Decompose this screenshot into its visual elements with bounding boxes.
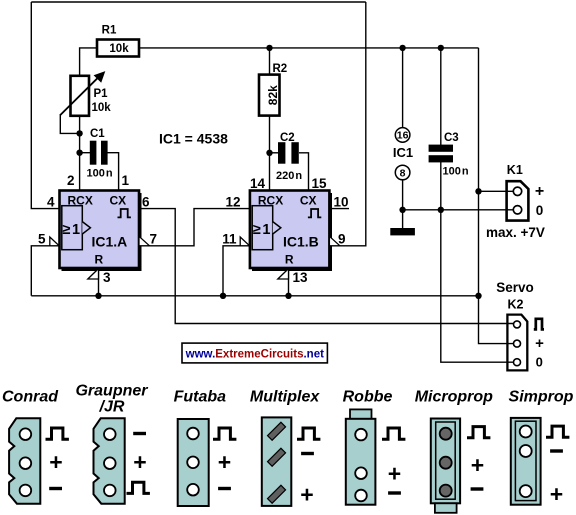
svg-text:C1: C1 [90,128,105,140]
svg-text:IC1: IC1 [393,145,413,160]
svg-text:R2: R2 [273,63,288,75]
node junction bottom rail supply drop [475,293,481,299]
wire pin 6 to K2 pulse pin [139,209,514,324]
Graupner pulse symbol [127,482,150,493]
Microprop minus [471,487,484,490]
wire K1 plus [479,190,514,192]
svg-text:13: 13 [293,270,309,285]
Multiplex minus [301,452,314,455]
ground [390,228,415,235]
svg-text:K2: K2 [508,297,524,311]
wire IC1 pin 8 [402,180,404,210]
svg-text:+: + [49,449,62,475]
wire C1 left link [80,152,90,154]
connector Microprop [431,419,460,513]
svg-text:+: + [471,452,484,478]
svg-text:/JR: /JR [99,399,125,416]
svg-text:8: 8 [400,167,406,179]
svg-text:Futaba: Futaba [174,388,227,405]
wire ground rail to K1 zero pin [403,209,514,211]
svg-text:IC1 = 4538: IC1 = 4538 [159,130,228,146]
svg-text:2: 2 [67,173,75,188]
svg-text:+: + [535,335,544,352]
svg-text:9: 9 [338,231,346,246]
svg-text:Microprop: Microprop [415,389,493,406]
wire C2 right to pin 15 [299,153,309,191]
svg-text:+: + [133,449,146,475]
connector Robbe [346,409,376,504]
node junction bottom rail pin13 [285,293,291,299]
svg-text:max. +7V: max. +7V [486,225,545,240]
svg-text:P1: P1 [94,88,109,100]
resistor R2 [259,63,287,116]
wire ground to K2 zero pin [441,210,514,362]
Robbe pulse symbol [382,428,405,439]
capacitor C3 [429,132,469,178]
svg-text:+: + [535,183,544,200]
node junction top rail at pin16 [399,45,405,51]
wire C1 right to pin 1 [108,153,119,191]
wire ground stem [402,210,404,228]
label www.ExtremeCircuits.net box [182,343,327,363]
op-amp IC1.B monostable block [250,191,332,272]
wire R1 left to P1 top [80,48,97,76]
capacitor C2 [276,132,302,182]
svg-text:5: 5 [38,231,46,246]
label Graupner/JR [75,383,148,416]
Simprop pulse symbol [546,426,569,437]
wire feedback top [31,1,366,3]
wire R2 top [269,48,271,75]
connector Multiplex [262,417,292,506]
svg-text:RCX: RCX [258,193,283,207]
svg-text:0: 0 [536,355,543,370]
resistor R1 [97,24,139,56]
connector Graupner [94,418,125,503]
svg-text:12: 12 [225,194,240,209]
svg-text:Multiplex: Multiplex [250,388,320,405]
pin 9 trigger triangle [329,236,340,246]
wire R2 bottom to pin 14 [269,115,271,190]
svg-text:RCX: RCX [68,193,93,207]
svg-text:+: + [300,482,313,508]
svg-text:Simprop: Simprop [509,389,574,406]
svg-text:14: 14 [250,176,266,191]
connector Conrad [9,418,40,503]
wire left vertical to pin 4 [31,2,59,209]
wire pin 3 to bottom rail [98,268,100,296]
wire C3 bottom [440,162,442,210]
wire pin 9 feedback [328,2,366,246]
connector Futaba [178,419,209,506]
svg-text:+: + [550,481,563,507]
wire top supply rail [139,47,479,49]
wire P1 wiper tail [60,114,79,133]
node junction C2 tap [266,150,272,156]
svg-text:10: 10 [334,194,349,209]
pin 5 trigger triangle [50,237,59,246]
wire pin 7 to pin 12 [139,209,250,246]
wire C3 top [440,48,442,145]
svg-text:≥1: ≥1 [63,222,81,238]
svg-text:82k: 82k [266,85,280,105]
Multiplex pulse symbol [297,428,320,439]
svg-text:4: 4 [47,194,55,209]
svg-text:R: R [95,253,104,267]
node junction bottom rail pin11 [220,293,226,299]
wire supply drop to K2 plus pin [479,48,514,344]
Microprop pulse symbol [467,427,490,438]
svg-text:0: 0 [536,203,544,218]
Futaba minus [218,487,231,490]
wire IC1 pin 16 [402,48,404,128]
connector K1 [507,163,545,220]
svg-text:Graupner: Graupner [75,383,148,400]
node junction bottom rail pin3 [95,293,101,299]
svg-text:7: 7 [150,231,158,246]
svg-text:IC1.A: IC1.A [92,234,128,250]
svg-text:11: 11 [222,231,237,246]
svg-text:≥1: ≥1 [253,222,271,238]
node junction top rail at R2 [266,45,272,51]
Simprop minus [550,449,563,452]
svg-text:10k: 10k [109,43,129,55]
wire pin 5 to bottom rail [31,246,59,296]
svg-text:IC1.B: IC1.B [283,234,319,250]
connector Simprop [511,418,541,505]
node junction K1 plus [475,188,481,194]
svg-text:Servo: Servo [496,280,534,295]
pin 3 reset triangle [88,269,99,279]
node junction ground at pin8 [399,207,405,213]
IC1 power pin 8 [395,165,410,180]
pin 13 reset triangle [278,269,289,279]
op-amp IC1.A monostable block [60,191,142,272]
svg-text:220n: 220n [276,170,302,182]
node junction P1 wiper [76,130,82,136]
svg-text:10k: 10k [92,102,112,114]
svg-text:C3: C3 [444,132,459,144]
IC1 power pin 16 [395,128,410,143]
svg-text:Robbe: Robbe [343,389,393,406]
Conrad minus [49,487,62,490]
wire bottom VDD rail [31,295,478,297]
svg-text:CX: CX [300,193,317,207]
svg-text:100n: 100n [443,166,469,178]
svg-text:www.ExtremeCircuits.net: www.ExtremeCircuits.net [185,349,324,361]
svg-text:+: + [388,461,401,487]
Graupner minus [133,432,146,435]
node junction ground at C3 [438,207,444,213]
wire P1 bottom to pin 2 [79,116,81,191]
pin 11 trigger triangle [240,237,249,246]
svg-text:3: 3 [103,270,111,285]
potentiometer P1 [60,71,111,116]
svg-text:6: 6 [142,194,150,209]
wire pin 13 to bottom rail [288,268,290,296]
svg-text:1: 1 [122,173,130,188]
connector K2 [496,280,544,371]
Futaba pulse symbol [213,428,236,439]
pin 7 trigger triangle [139,236,150,246]
svg-text:R1: R1 [102,24,117,36]
node junction top rail at C3 [438,45,444,51]
svg-text:K1: K1 [507,163,523,177]
svg-text:+: + [218,449,231,475]
wire pin 11 to bottom rail [223,246,250,296]
Conrad pulse symbol [46,428,69,439]
svg-text:16: 16 [397,130,409,142]
svg-text:15: 15 [312,176,328,191]
node junction C1 tap [76,150,82,156]
svg-text:C2: C2 [280,132,295,144]
svg-text:Conrad: Conrad [2,388,59,405]
Robbe minus [388,491,401,494]
wire C2 left link [270,152,279,154]
svg-text:CX: CX [110,193,127,207]
svg-text:R: R [285,253,294,267]
capacitor C1 [87,128,113,180]
svg-text:100n: 100n [87,168,113,180]
wire pin 10 stub [328,208,349,210]
